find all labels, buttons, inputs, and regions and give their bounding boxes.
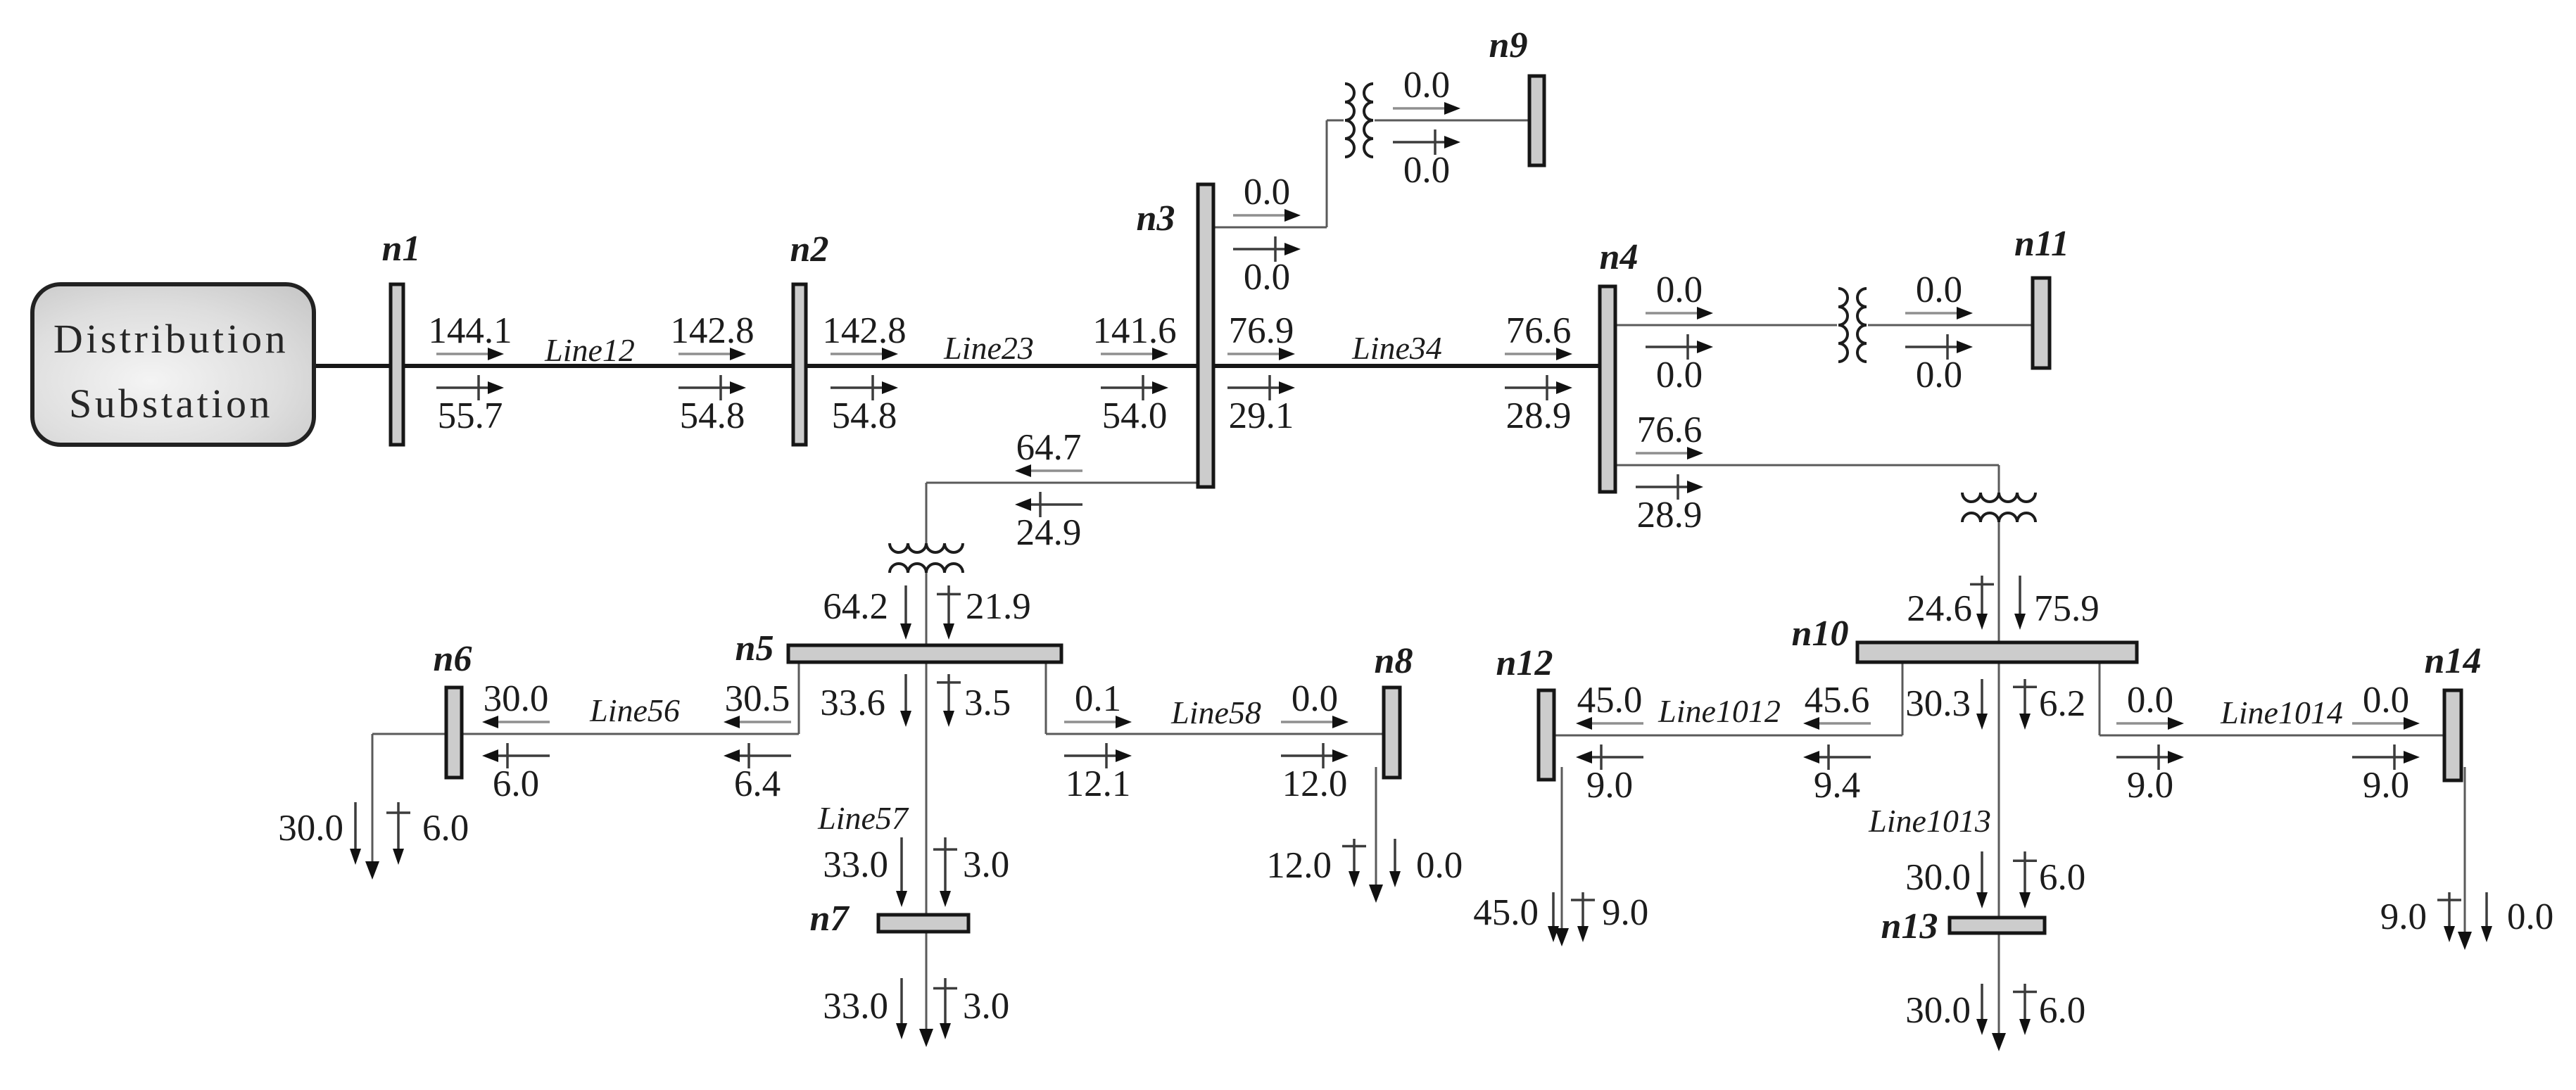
svg-text:0.0: 0.0 <box>1656 355 1703 395</box>
svg-text:3.0: 3.0 <box>963 844 1009 885</box>
svg-text:n2: n2 <box>790 229 829 270</box>
svg-text:Line58: Line58 <box>1170 695 1261 730</box>
svg-text:12.0: 12.0 <box>1282 763 1348 804</box>
svg-text:Line56: Line56 <box>589 692 680 728</box>
svg-text:6.0: 6.0 <box>493 763 539 804</box>
svg-text:30.0: 30.0 <box>1905 990 1971 1031</box>
svg-text:30.0: 30.0 <box>1905 857 1971 898</box>
svg-text:6.0: 6.0 <box>2039 857 2085 898</box>
svg-text:n12: n12 <box>1496 643 1553 683</box>
svg-text:76.6: 76.6 <box>1506 310 1572 351</box>
svg-text:0.0: 0.0 <box>1916 355 1962 395</box>
svg-text:9.0: 9.0 <box>2380 896 2427 937</box>
svg-text:144.1: 144.1 <box>428 310 512 351</box>
svg-text:6.0: 6.0 <box>422 808 469 849</box>
svg-text:3.5: 3.5 <box>964 683 1011 723</box>
svg-text:24.6: 24.6 <box>1907 588 1972 629</box>
svg-text:0.0: 0.0 <box>1403 65 1450 106</box>
svg-text:0.0: 0.0 <box>1416 845 1463 886</box>
svg-text:0.0: 0.0 <box>2363 680 2409 721</box>
svg-text:0.0: 0.0 <box>1292 678 1338 719</box>
svg-text:9.0: 9.0 <box>2127 765 2173 806</box>
svg-text:76.9: 76.9 <box>1229 310 1294 351</box>
svg-text:30.0: 30.0 <box>484 678 549 719</box>
svg-text:30.5: 30.5 <box>725 678 790 719</box>
svg-text:n7: n7 <box>810 899 850 939</box>
svg-text:21.9: 21.9 <box>966 586 1031 627</box>
svg-text:55.7: 55.7 <box>438 395 503 436</box>
svg-text:n14: n14 <box>2425 641 2482 681</box>
svg-text:141.6: 141.6 <box>1092 310 1176 351</box>
svg-text:45.0: 45.0 <box>1473 892 1539 933</box>
svg-text:n5: n5 <box>735 628 774 668</box>
svg-text:6.2: 6.2 <box>2039 683 2085 724</box>
svg-text:30.3: 30.3 <box>1905 683 1971 724</box>
svg-text:0.0: 0.0 <box>1916 270 1962 310</box>
svg-text:54.8: 54.8 <box>680 395 745 436</box>
svg-text:28.9: 28.9 <box>1506 395 1572 436</box>
svg-text:Line1014: Line1014 <box>2220 695 2343 730</box>
svg-text:n1: n1 <box>382 229 421 269</box>
svg-text:0.0: 0.0 <box>2507 896 2553 937</box>
svg-text:Line23: Line23 <box>943 330 1034 366</box>
svg-text:33.0: 33.0 <box>823 844 888 885</box>
svg-text:0.0: 0.0 <box>1244 172 1290 213</box>
svg-text:30.0: 30.0 <box>278 808 343 849</box>
svg-text:28.9: 28.9 <box>1637 495 1703 536</box>
svg-text:0.0: 0.0 <box>1244 257 1290 298</box>
svg-text:n10: n10 <box>1792 614 1849 654</box>
svg-text:6.4: 6.4 <box>734 763 781 804</box>
svg-text:0.0: 0.0 <box>1403 150 1450 191</box>
svg-text:n8: n8 <box>1375 641 1413 681</box>
svg-text:Line34: Line34 <box>1351 330 1442 366</box>
svg-text:Substation: Substation <box>69 381 273 426</box>
svg-text:12.1: 12.1 <box>1066 763 1131 804</box>
svg-text:29.1: 29.1 <box>1229 395 1294 436</box>
svg-text:75.9: 75.9 <box>2034 588 2100 629</box>
svg-text:54.8: 54.8 <box>832 395 897 436</box>
svg-text:n13: n13 <box>1881 906 1938 946</box>
svg-text:142.8: 142.8 <box>670 310 754 351</box>
svg-text:n6: n6 <box>434 639 472 679</box>
svg-text:9.0: 9.0 <box>1586 765 1633 806</box>
svg-text:24.9: 24.9 <box>1016 512 1082 553</box>
svg-text:0.0: 0.0 <box>1656 270 1703 310</box>
svg-text:54.0: 54.0 <box>1102 395 1168 436</box>
svg-text:Line57: Line57 <box>817 800 909 836</box>
svg-text:6.0: 6.0 <box>2039 990 2085 1031</box>
svg-text:9.4: 9.4 <box>1814 765 1860 806</box>
svg-text:Line1013: Line1013 <box>1868 803 1991 839</box>
svg-text:9.0: 9.0 <box>2363 765 2409 806</box>
svg-text:64.2: 64.2 <box>823 586 888 627</box>
svg-text:n11: n11 <box>2014 224 2069 264</box>
svg-text:n4: n4 <box>1600 237 1639 277</box>
svg-text:Line12: Line12 <box>544 332 635 368</box>
svg-text:Distribution: Distribution <box>53 316 289 362</box>
svg-text:12.0: 12.0 <box>1266 845 1332 886</box>
svg-text:Line1012: Line1012 <box>1658 693 1781 729</box>
svg-text:n3: n3 <box>1137 198 1175 239</box>
svg-text:45.0: 45.0 <box>1577 680 1643 721</box>
svg-text:9.0: 9.0 <box>1602 892 1648 933</box>
svg-text:142.8: 142.8 <box>822 310 906 351</box>
svg-text:0.0: 0.0 <box>2127 680 2173 721</box>
svg-text:n9: n9 <box>1489 25 1528 65</box>
svg-text:33.0: 33.0 <box>823 986 888 1027</box>
svg-text:45.6: 45.6 <box>1805 680 1870 721</box>
svg-text:3.0: 3.0 <box>963 986 1009 1027</box>
svg-text:0.1: 0.1 <box>1075 678 1121 719</box>
svg-text:64.7: 64.7 <box>1016 427 1082 468</box>
svg-text:76.6: 76.6 <box>1637 410 1703 450</box>
svg-text:33.6: 33.6 <box>820 683 885 723</box>
